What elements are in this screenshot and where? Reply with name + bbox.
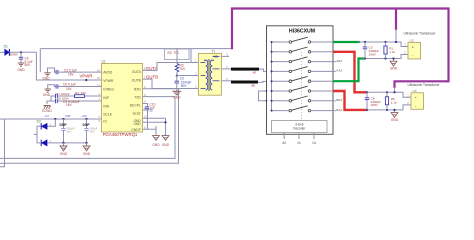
svg-text:TB: TB xyxy=(148,108,153,112)
svg-text:16V: 16V xyxy=(66,87,73,91)
svg-text:GND: GND xyxy=(173,95,181,99)
ground GND row AVDD xyxy=(42,73,50,81)
junction mux bus row 4 xyxy=(271,70,273,72)
capacitor C9 row INN xyxy=(47,99,102,107)
svg-text:GND: GND xyxy=(42,77,50,81)
wire purple branch to transducer U2 xyxy=(395,10,397,43)
svg-text:14: 14 xyxy=(97,84,101,88)
svg-text:HI36CXUM: HI36CXUM xyxy=(289,29,315,35)
svg-text:RXD: RXD xyxy=(134,88,142,92)
ground GND under C4 xyxy=(17,63,25,72)
svg-text:INN: INN xyxy=(103,104,109,108)
svg-text:GND: GND xyxy=(391,118,399,122)
svg-text:OUTB: OUTB xyxy=(132,79,142,83)
svg-text:GND: GND xyxy=(60,152,68,156)
svg-text:AE: AE xyxy=(253,70,257,74)
capacitor C11 DNP xyxy=(60,119,75,143)
op-amp U1 PGA460 body xyxy=(102,59,143,132)
svg-text:Ultrasonic Transducer: Ultrasonic Transducer xyxy=(403,31,436,35)
svg-text:INP: INP xyxy=(103,96,109,100)
junction U2 rail C5 xyxy=(364,41,366,60)
svg-text:16V: 16V xyxy=(68,72,75,76)
svg-text:GND: GND xyxy=(162,143,170,147)
svg-text:Decoder: Decoder xyxy=(293,127,306,131)
svg-text:16V: 16V xyxy=(66,103,73,107)
svg-text:GND: GND xyxy=(133,122,141,126)
wire VPWR vertical to pin row xyxy=(36,52,101,80)
net label BA2 xyxy=(333,108,342,112)
mux control pins A0 /A 1A xyxy=(282,133,317,145)
net label AA2 xyxy=(333,69,342,73)
svg-text:GND: GND xyxy=(152,143,160,147)
junction mux bus row 3 xyxy=(271,61,273,63)
mux switch SW7 xyxy=(272,96,334,102)
svg-text:U1: U1 xyxy=(102,59,106,63)
svg-text:D1: D1 xyxy=(4,45,8,49)
svg-text:100V: 100V xyxy=(369,52,377,56)
junction mux bus row 6 xyxy=(271,90,273,92)
resistor R1 xyxy=(384,42,396,59)
svg-text:GND: GND xyxy=(390,67,398,71)
diode D1 xyxy=(4,45,18,57)
junction node VPWR-in xyxy=(20,51,22,53)
ground GND row IOREG xyxy=(43,89,51,97)
svg-text:AE3: AE3 xyxy=(336,59,342,63)
svg-text:B340A: B340A xyxy=(10,53,18,57)
junction D2 row at C12 xyxy=(85,142,87,144)
capacitor C6 row IOREG xyxy=(48,83,102,91)
svg-text:A0: A0 xyxy=(282,141,286,145)
junction on VPWR row xyxy=(85,79,87,81)
wire U3 minus rail xyxy=(367,105,412,110)
net label AE3 xyxy=(333,59,342,63)
net label OUTA xyxy=(146,66,158,71)
svg-text:+3C: +3C xyxy=(81,114,87,118)
label Ultrasonic Transducer top xyxy=(403,31,436,35)
wire purple tail to transducer U3 xyxy=(394,87,396,92)
svg-text:DECPL: DECPL xyxy=(130,104,141,108)
net label BE3 xyxy=(333,98,342,102)
svg-text:TEST: TEST xyxy=(132,112,140,116)
port IN xyxy=(0,51,5,53)
wire TXD loop xyxy=(0,97,175,159)
U1 left pin numbers xyxy=(97,68,101,123)
mux switch SW5 xyxy=(272,76,334,82)
svg-text:700: 700 xyxy=(180,67,186,71)
svg-text:GNDP: GNDP xyxy=(131,128,141,132)
junction mux bus row 1 xyxy=(271,41,273,43)
node B thick bus bar xyxy=(221,81,271,88)
net label INP xyxy=(65,114,70,118)
wire green mux to U2 plus xyxy=(333,41,360,43)
resistor R5 xyxy=(385,92,397,110)
svg-text:R4: R4 xyxy=(75,91,79,95)
svg-text:R2: R2 xyxy=(168,51,172,55)
capacitor C2 row AVDD xyxy=(48,68,102,76)
svg-text:16V: 16V xyxy=(90,129,95,133)
capacitor C12 DNP xyxy=(83,119,98,143)
svg-text:U3: U3 xyxy=(413,89,417,93)
resistor R3 zigzag xyxy=(175,49,185,76)
wire D2 bottom row xyxy=(47,142,86,144)
capacitor C3 xyxy=(175,76,192,92)
wire input row INP net xyxy=(0,118,102,120)
svg-text:AVDD: AVDD xyxy=(103,71,113,75)
junction mux bus row 8 xyxy=(271,110,273,112)
junction mux bus row 5 xyxy=(271,80,273,82)
op-amp U4 HI36CXUM mux body xyxy=(267,26,334,135)
wire top rail OUTA-net xyxy=(40,48,232,50)
mux decoder sub-block xyxy=(272,52,327,133)
junction mux jumper bottom xyxy=(266,100,268,102)
svg-text:16V: 16V xyxy=(67,129,72,133)
junction mux bus row 2 xyxy=(271,51,273,53)
wire U2 plus rail xyxy=(358,42,408,47)
node A thick bus bar xyxy=(221,68,271,75)
capacitor C10 on DECPL xyxy=(143,103,156,130)
wire red mux to U3 plus xyxy=(333,52,367,93)
wire RXD loop xyxy=(0,89,179,163)
svg-text:T1: T1 xyxy=(212,49,216,53)
wire green mux to U2 minus xyxy=(333,59,365,82)
svg-text:50V: 50V xyxy=(25,63,32,67)
net label INN xyxy=(81,114,87,118)
junction input row at C11 xyxy=(62,118,64,120)
junction input row at D2 xyxy=(54,118,56,120)
junction mux bus row 7 xyxy=(271,100,273,102)
svg-text:700: 700 xyxy=(174,51,180,55)
svg-text:LO: LO xyxy=(45,114,50,118)
mux switch SW2 xyxy=(272,47,334,53)
svg-text:+: + xyxy=(415,96,417,100)
svg-text:BA2: BA2 xyxy=(336,108,342,112)
wire rail drop to AVDD row xyxy=(39,49,41,73)
wire input row stub to edge xyxy=(0,119,5,167)
junction U3 rail R5 xyxy=(386,91,388,111)
ground GND under DECPL xyxy=(152,126,160,147)
junction U2 rail purple xyxy=(395,41,397,43)
svg-text:100V: 100V xyxy=(371,103,379,107)
transducer U3 body xyxy=(407,89,423,110)
svg-text:PGA460TPWRQ1: PGA460TPWRQ1 xyxy=(103,132,138,137)
wire mux jumper rows 6-7 xyxy=(259,91,267,101)
net label TB on TEST pin xyxy=(143,108,154,112)
junction GND pins xyxy=(164,121,166,123)
svg-text:1.1k: 1.1k xyxy=(391,101,397,105)
wire OUTA to transformer pin 1 xyxy=(143,63,199,71)
svg-text:IO: IO xyxy=(103,120,107,124)
wire U3 plus rail xyxy=(367,92,412,97)
svg-text:C7 100pF: C7 100pF xyxy=(56,92,70,96)
mux switch SW4 xyxy=(272,67,334,73)
svg-text:Ultrasonic Transducer: Ultrasonic Transducer xyxy=(407,83,440,87)
svg-text:BE3: BE3 xyxy=(336,98,342,102)
svg-text:SCLK: SCLK xyxy=(103,113,112,117)
svg-text:TXD: TXD xyxy=(134,96,141,100)
transducer U2 body xyxy=(404,38,420,59)
ground GND under C11 xyxy=(60,143,68,156)
junction R3-C3 node xyxy=(176,75,178,77)
svg-text:EGND: EGND xyxy=(42,109,52,113)
wire rail riser to T1 pin 1 xyxy=(190,49,192,63)
junction mux jumper top xyxy=(266,90,268,92)
wire OUTB to transformer pin 3 xyxy=(143,79,199,88)
ground GND under C3 xyxy=(172,91,181,99)
transformer T1 windings xyxy=(201,56,220,91)
svg-text:GND: GND xyxy=(17,68,25,72)
wire mux common bus xyxy=(271,42,273,111)
transformer T1 body xyxy=(198,49,221,95)
label Ultrasonic Transducer bottom xyxy=(407,83,440,87)
svg-text:D2: D2 xyxy=(37,120,41,124)
mux switch SW6 xyxy=(272,86,334,92)
junction U2 rail R1 xyxy=(384,41,386,60)
U1 right pin names xyxy=(130,70,142,132)
resistor R2 box xyxy=(165,49,190,60)
ground GND under C12 xyxy=(83,143,91,156)
wire OUTA purple highlight xyxy=(232,9,449,89)
net label OUTB xyxy=(146,75,158,80)
svg-text:BE: BE xyxy=(252,84,256,88)
capacitor C7 and resistor R4 row INP xyxy=(51,91,102,101)
U1 right pin numbers xyxy=(144,67,147,130)
svg-text:OUTA: OUTA xyxy=(132,70,142,74)
svg-text:GND: GND xyxy=(43,93,51,97)
diode D2 dual package xyxy=(34,119,55,146)
svg-text:VPWR: VPWR xyxy=(103,79,114,83)
junction D2 row at C11 xyxy=(62,142,64,144)
U1 left pin names xyxy=(103,71,114,124)
mux switch SW1 xyxy=(272,37,334,43)
capacitor C4 xyxy=(19,52,33,67)
junction U3 rail C8 xyxy=(366,91,368,111)
svg-text:1.1k: 1.1k xyxy=(389,50,395,54)
junction U3 rail purple xyxy=(393,91,395,93)
wire GNDP pin xyxy=(143,126,157,129)
wire T1 pin 5 stub xyxy=(221,55,229,57)
wire center tap to transformer pin 2 xyxy=(177,75,199,77)
svg-text:VPWR: VPWR xyxy=(80,73,93,78)
junction input row at C12 xyxy=(85,118,87,120)
transformer T1 pin numbers xyxy=(195,52,229,88)
ground GND under GND pins xyxy=(162,126,170,147)
capacitor C8 xyxy=(365,92,381,110)
svg-text:U2: U2 xyxy=(410,38,414,42)
svg-text:AA2: AA2 xyxy=(336,69,342,73)
svg-text:INP: INP xyxy=(65,114,70,118)
net label VPWR xyxy=(80,73,93,78)
svg-text:15: 15 xyxy=(97,76,101,80)
svg-text:50V: 50V xyxy=(181,84,188,88)
capacitor C5 xyxy=(363,42,379,59)
net label LO xyxy=(45,114,50,118)
wire GND pins xyxy=(143,118,166,126)
svg-text:+: + xyxy=(412,46,414,50)
label U1 part number xyxy=(103,132,138,137)
mux switch SW3 xyxy=(272,57,334,63)
mux switch SW8 xyxy=(272,106,334,112)
ground GND under U2 network xyxy=(390,57,398,70)
svg-text:IOREG: IOREG xyxy=(103,88,114,92)
wire red mux to U3 minus xyxy=(333,91,367,110)
svg-text:100: 100 xyxy=(81,91,86,95)
wire U2 minus rail xyxy=(363,55,408,59)
wire D1 cathode to node xyxy=(9,51,36,53)
svg-text:GND: GND xyxy=(83,152,91,156)
ground GND under U3 network xyxy=(391,109,399,122)
ground EGND chassis xyxy=(42,106,52,114)
